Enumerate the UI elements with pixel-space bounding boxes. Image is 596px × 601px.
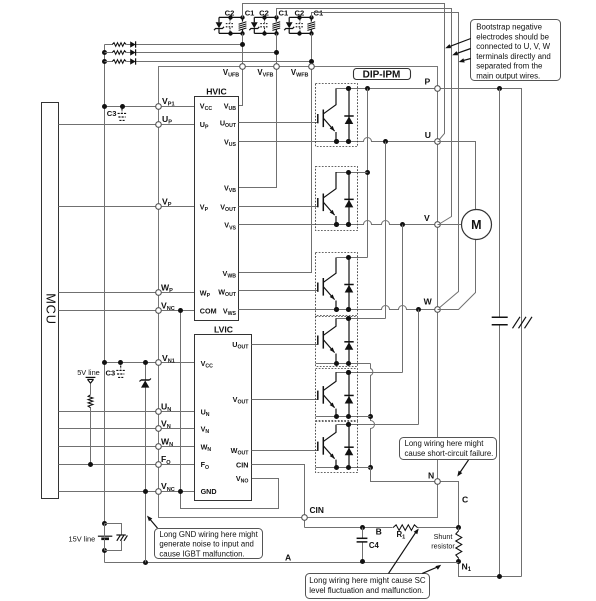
svg-text:15V line: 15V line (69, 535, 96, 544)
svg-text:Long wiring here might cause S: Long wiring here might cause SC (309, 576, 426, 585)
svg-text:C3: C3 (106, 368, 116, 377)
wire VP1 line (105, 106, 195, 108)
wire bootstrap row 2 (to VVFB) (105, 52, 277, 54)
callout arrow to ground line (148, 517, 157, 528)
node VNC terminal (high side) (156, 308, 162, 314)
transistor Q5 (IGBT) (318, 372, 336, 417)
svg-text:C2: C2 (225, 8, 235, 17)
callout: short-circuit failure note (400, 438, 497, 460)
node VN terminal (156, 426, 162, 432)
battery 15V line (98, 521, 112, 553)
diode D4 (freewheel) (344, 316, 353, 366)
diode row2 (130, 49, 135, 55)
resistor 5V pull-up (88, 395, 93, 408)
wire Q5 emitter rail (316, 416, 371, 418)
wire VVFB drop to HVIC VVB (239, 34, 277, 188)
diode D6 (freewheel) (344, 422, 353, 470)
dashed outline Q1 cell (316, 84, 358, 147)
wire Q5 collector rail (337, 372, 403, 374)
motor M (462, 210, 492, 240)
transistor Q6 (IGBT) (318, 425, 336, 468)
svg-text:C: C (462, 495, 468, 505)
zener diode ZDW (284, 22, 294, 30)
wire V phase to motor (438, 224, 462, 226)
node VWFB terminal (309, 64, 315, 70)
diode D3 (freewheel) (344, 255, 353, 312)
DIP-IPM package boundary (159, 67, 438, 518)
wire LVIC VOUT gate drive (to Q5) (252, 399, 318, 401)
wire bootstrap negative U (over the top to U terminal) (243, 4, 445, 141)
diode D1 (freewheel) (344, 86, 353, 144)
wire UOUT gate drive (HVIC to Q1) (239, 122, 318, 124)
wire WP line MCU to HVIC (59, 292, 195, 294)
wire W phase to motor (438, 240, 476, 310)
resistor row2 (112, 51, 126, 55)
wire bootstrap negative V (277, 9, 452, 225)
svg-text:level fluctuation and malfunct: level fluctuation and malfunction. (309, 586, 423, 595)
node UN terminal (156, 409, 162, 415)
dashed outline Q3 cell (316, 253, 358, 316)
svg-text:M: M (471, 218, 481, 232)
capacitor C1 (W) (307, 17, 315, 33)
svg-text:W: W (424, 297, 433, 307)
svg-text:5V line: 5V line (77, 368, 100, 377)
capacitor C4 (362, 528, 364, 562)
node N terminal (435, 479, 441, 485)
wire VP line MCU to HVIC (59, 206, 195, 208)
node VUFB terminal (240, 64, 246, 70)
wire bootstrap negative W (312, 13, 459, 309)
diode D5 (freewheel) (344, 370, 353, 419)
wire 15V rail bottom to battery (104, 551, 106, 563)
svg-text:C2: C2 (295, 8, 305, 17)
svg-text:C1: C1 (245, 8, 255, 17)
dashed outline Q5 cell (316, 369, 358, 421)
chassis hatch at DC-link (513, 317, 533, 329)
wire VWFB drop to HVIC VWB (239, 34, 312, 273)
svg-text:Shunt: Shunt (434, 532, 453, 541)
svg-text:CIN: CIN (236, 460, 248, 469)
dashed outline Q2 cell (316, 167, 358, 231)
svg-text:connected to U, V, W: connected to U, V, W (476, 42, 550, 51)
HVIC pin labels left (200, 101, 217, 315)
wire V bus down to Q5 collector (402, 225, 404, 373)
resistor row1 (112, 43, 126, 47)
svg-text:Long GND wiring here might: Long GND wiring here might (159, 530, 258, 539)
zener diode at VN1-VNC (140, 363, 151, 563)
capacitor C1 (U) (239, 17, 247, 33)
svg-text:DIP-IPM: DIP-IPM (363, 69, 401, 80)
chassis ground at 15V line (105, 524, 128, 551)
wire FO line (59, 464, 195, 466)
resistor shunt (456, 531, 462, 559)
svg-text:C3: C3 (107, 109, 117, 118)
wire N bus chaining low-side emitters (371, 364, 375, 468)
node WN terminal (156, 444, 162, 450)
wire LVIC WOUT gate drive (to Q6) (252, 450, 318, 452)
svg-text:MCU: MCU (44, 293, 59, 325)
bootstrap cell U: rails (219, 15, 245, 35)
node P terminal (435, 86, 441, 92)
wire 15V rail (x=105) (104, 45, 106, 524)
node CIN terminal (302, 515, 308, 521)
wire V emitter rail / VVS (HVIC to V terminal) (239, 221, 438, 225)
wire control-ground link (x=181, VNC to GND to VNO) (181, 311, 279, 509)
wire 5V pull-up to FO (90, 384, 92, 465)
wire VNC lower line to LVIC GND (59, 491, 195, 493)
transistor Q2 (IGBT) (318, 172, 336, 225)
svg-text:P: P (425, 77, 431, 87)
wire VOUT gate drive (HVIC to Q2) (239, 206, 318, 208)
MCU block (42, 103, 59, 499)
wire P bus down to Q2,Q3 collectors (367, 89, 369, 258)
bootstrap cell V: rails (254, 15, 278, 35)
zener diode ZDV (249, 22, 259, 30)
svg-text:COM: COM (200, 306, 217, 315)
svg-text:generate noise to input and: generate noise to input and (159, 540, 254, 549)
wire U phase to motor (438, 142, 476, 210)
diode D2 (freewheel) (344, 170, 353, 227)
svg-text:C1: C1 (279, 8, 289, 17)
svg-text:Bootstrap negative: Bootstrap negative (476, 23, 542, 32)
DIP-IPM label box (354, 69, 411, 81)
svg-text:separated from the: separated from the (476, 62, 543, 71)
wire P rail (top collectors to P terminal and DC bus) (337, 89, 522, 577)
svg-text:cause short-circuit failure.: cause short-circuit failure. (405, 449, 494, 458)
wire LVIC UOUT gate drive (to Q4) (252, 344, 318, 346)
wire ground A line (15V return to N1) (105, 562, 459, 564)
dashed outline Q6 cell (316, 422, 358, 473)
diode row3 (130, 58, 135, 64)
capacitor C3 (at VP1) (118, 109, 127, 121)
node UP terminal (156, 122, 162, 128)
node W terminal (435, 307, 441, 313)
svg-text:U: U (425, 130, 431, 140)
svg-text:resistor: resistor (431, 541, 455, 550)
node U terminal (435, 139, 441, 145)
svg-text:N: N (428, 471, 434, 481)
svg-text:Long wiring here might: Long wiring here might (405, 439, 485, 448)
callout: bootstrap negative electrodes note (471, 20, 561, 81)
bootstrap cell W: rails (289, 15, 313, 35)
node VVFB terminal (274, 64, 280, 70)
wire UN line (59, 411, 195, 413)
wire WOUT gate drive (HVIC to Q3) (239, 290, 318, 292)
wire bootstrap row 1 (to VUFB) (105, 44, 243, 46)
node VN1 terminal (156, 360, 162, 366)
svg-text:CIN: CIN (310, 505, 324, 515)
transistor Q1 (IGBT) (318, 88, 336, 141)
svg-text:C4: C4 (369, 541, 380, 550)
wire Q6 collector rail (337, 424, 419, 426)
node VP1 terminal (156, 104, 162, 110)
wire Q4 emitter rail (316, 363, 371, 365)
zener diode ZDU (214, 22, 224, 30)
wire VUFB drop (cap group U to VUFB terminal and HVIC VUB) (239, 34, 243, 106)
wire Q3 collector rail (337, 257, 368, 259)
HVIC pin labels right (218, 101, 237, 317)
wire VNC line MCU to HVIC COM (59, 310, 195, 312)
callout arrows to bootstrap wires (445, 39, 471, 63)
wire VN line (59, 428, 195, 430)
svg-text:terminals directly and: terminals directly and (476, 52, 551, 61)
wire WN line (59, 446, 195, 448)
node WP terminal (156, 290, 162, 296)
resistor R1 (393, 525, 418, 531)
callout: SC level fluctuation note (306, 574, 430, 599)
node FO terminal (156, 462, 162, 468)
capacitor DC-link (492, 317, 508, 324)
svg-text:electrodes should be: electrodes should be (476, 32, 549, 41)
svg-text:cause IGBT malfunction.: cause IGBT malfunction. (159, 549, 244, 558)
wire bootstrap row 3 (to VWFB) (105, 61, 312, 63)
callout: long GND wiring note (155, 529, 263, 559)
wire Q2 collector rail (337, 172, 368, 174)
svg-text:B: B (376, 527, 382, 537)
op-amp/driver U2 LVIC block (195, 325, 252, 501)
wire N1 to bottom corner (459, 562, 522, 577)
node VP terminal (156, 204, 162, 210)
callout arrow to N wire (459, 460, 469, 475)
LVIC pin labels right (231, 340, 250, 484)
wire Q6 emitter rail (316, 467, 371, 469)
op-amp/driver U1 HVIC block (195, 87, 239, 321)
5V line tap symbol (86, 377, 96, 383)
transistor Q3 (IGBT) (318, 258, 336, 310)
diode row1 (130, 41, 135, 47)
capacitor C2 (U, electrolytic, dotted) (226, 19, 234, 32)
svg-text:V: V (424, 213, 430, 223)
transistor Q4 (IGBT) (318, 318, 336, 363)
wire U emitter rail / VUS (HVIC to U terminal) (239, 138, 438, 142)
resistor row3 (112, 60, 126, 64)
dashed outline Q4 cell (316, 317, 358, 367)
wire W emitter rail / VWS (HVIC to W terminal) (239, 306, 438, 310)
wire UP line MCU to HVIC (59, 124, 195, 126)
wire Q4 collector rail (337, 318, 386, 320)
svg-text:A: A (285, 553, 291, 563)
capacitor C3 (at VN1) (116, 366, 125, 378)
wire CIN sense line (252, 465, 305, 528)
wire DC bus capacitor leg (499, 89, 501, 577)
svg-text:LVIC: LVIC (214, 325, 233, 335)
junction dots on 15V rail (102, 104, 107, 109)
node VNC terminal (low side) (156, 489, 162, 495)
wire W bus down to Q6 collector (418, 310, 420, 425)
capacitor C2 (V, electrolytic, dotted) (260, 19, 268, 32)
wire U bus down to Q4 collector (385, 142, 387, 319)
node V terminal (435, 222, 441, 228)
svg-text:GND: GND (201, 487, 217, 496)
wire VN1 line to LVIC VCC (105, 362, 195, 364)
svg-text:HVIC: HVIC (206, 87, 227, 97)
wire N line to N terminal and C node (371, 468, 459, 528)
svg-text:C2: C2 (259, 8, 269, 17)
svg-text:main output wires.: main output wires. (476, 71, 540, 80)
capacitor C1 (V) (272, 17, 280, 33)
callout arrows to shunt wiring (389, 530, 418, 573)
capacitor C2 (W, electrolytic, dotted) (296, 19, 304, 32)
LVIC pin labels left (201, 359, 217, 496)
